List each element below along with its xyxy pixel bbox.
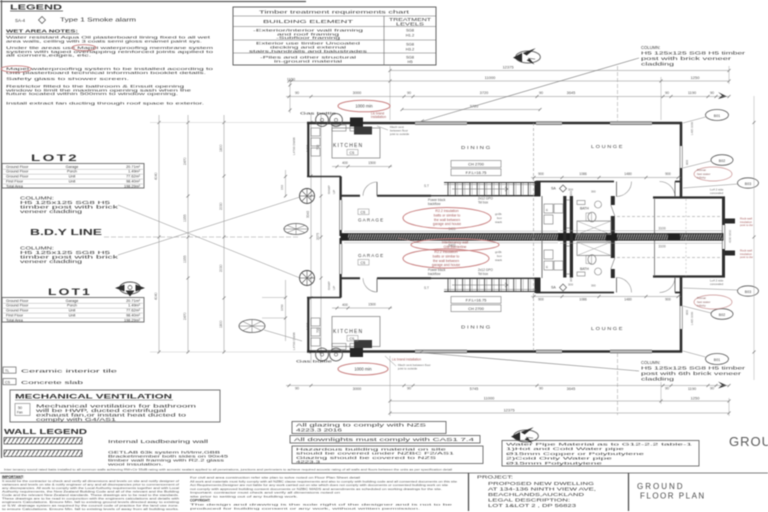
grid bubble B3 upper (738, 178, 759, 188)
dim row 3645-1190 bottom (718, 382, 727, 389)
svg-text:90: 90 (539, 91, 543, 95)
svg-text:post with 6th brick veneer: post with 6th brick veneer (641, 371, 742, 376)
boundary dash vertical upper (617, 66, 619, 121)
right edge dim line (753, 96, 755, 380)
svg-text:1190: 1190 (688, 386, 697, 391)
svg-text:joist to outside: joist to outside (389, 132, 410, 136)
svg-text:E: E (546, 208, 548, 212)
stair side wall lower (535, 278, 541, 294)
svg-text:DINING: DINING (461, 145, 492, 150)
svg-text:1480: 1480 (624, 172, 632, 176)
svg-text:to ensure Calculations. Ensure: to ensure Calculations. Ensure Min. fall… (2, 507, 179, 511)
svg-text:all corners,edges, etc.: all corners,edges, etc. (6, 53, 91, 58)
svg-text:Porch: Porch (67, 304, 77, 308)
svg-text:Fan: Fan (17, 411, 23, 415)
svg-text:1250: 1250 (691, 396, 701, 401)
bay dim 3100 upper (560, 230, 722, 232)
svg-text:LEVELS: LEVELS (396, 22, 424, 27)
svg-text:GROUND FLOOR PLAN: GROUND FLOOR PLAN (729, 434, 768, 449)
mechanical ventilation box (10, 390, 220, 422)
timber treatment table (233, 7, 436, 65)
dim line 12375 top (390, 70, 729, 72)
svg-text:3100: 3100 (658, 227, 666, 231)
svg-text:90: 90 (407, 91, 411, 95)
svg-text:L4T90 DW98: L4T90 DW98 (292, 137, 296, 155)
svg-text:300: 300 (569, 191, 573, 196)
svg-text:Concrete slab: Concrete slab (21, 380, 85, 385)
shower crossed box upper (577, 221, 611, 235)
svg-text:stack: stack (495, 220, 503, 224)
stair lower rail upper unit (431, 195, 536, 197)
sheet left border line (1, 0, 3, 458)
svg-text:900: 900 (538, 172, 544, 176)
wm dryer boxes lower (544, 261, 553, 270)
svg-text:Ground Floor: Ground Floor (6, 170, 29, 174)
right exterior wall lower (680, 277, 683, 306)
dining lounge divider upper (533, 123, 535, 351)
entry door arc upper (616, 182, 618, 197)
svg-text:Unit: Unit (69, 314, 77, 318)
svg-text:1050: 1050 (280, 304, 284, 311)
red clearance ellipse 1000 min top (338, 100, 390, 112)
svg-text:L495 0699: L495 0699 (690, 311, 694, 325)
svg-text:1480: 1480 (624, 297, 632, 301)
svg-text:2470: 2470 (183, 157, 187, 165)
svg-text:1250: 1250 (691, 75, 701, 80)
svg-text:900: 900 (665, 172, 671, 176)
boundary peg ellipse on BDY line (284, 224, 308, 235)
svg-text:S.T: S.T (424, 286, 429, 290)
closet wall upper (541, 196, 543, 233)
hazardous note box (292, 446, 483, 464)
svg-text:F.F.L=16.75: F.F.L=16.75 (466, 298, 488, 303)
svg-text:SA: SA (551, 187, 556, 191)
bath fixtures lower (577, 272, 585, 276)
kitchen appliances lower (311, 318, 320, 326)
ceiling height boxes upper (451, 161, 501, 168)
water pipe note box (502, 441, 699, 467)
svg-text:198.29m²: 198.29m² (124, 184, 141, 188)
svg-text:1800: 1800 (219, 144, 223, 152)
garage label upper (358, 209, 369, 215)
garage internal dim lower (344, 242, 558, 244)
svg-text:RAMP: RAMP (327, 281, 331, 290)
svg-text:700: 700 (316, 144, 320, 150)
svg-text:GIB plasterboard technical inf: GIB plasterboard technical information b… (6, 70, 206, 75)
dim row 90-3000-90 bottom (286, 385, 545, 387)
site dim line A vertical (158, 115, 160, 353)
hall wall lower (536, 292, 614, 294)
svg-text:LOUNGE: LOUNGE (591, 326, 624, 331)
dim line 1250 bottom (661, 400, 729, 402)
svg-text:2030: 2030 (219, 264, 223, 272)
wall legend hatch bar intertenancy (4, 450, 82, 457)
plan side dim line E vertical (320, 113, 322, 363)
svg-text:1800: 1800 (219, 320, 223, 328)
svg-text:Ground Floor: Ground Floor (6, 175, 29, 179)
bath wall upper (611, 196, 615, 205)
wm dryer boxes upper (544, 204, 553, 213)
svg-text:R2.2 insulation: R2.2 insulation (434, 250, 457, 254)
svg-text:90: 90 (539, 387, 543, 391)
dim line 11000 top (289, 80, 661, 82)
svg-text:1086: 1086 (579, 297, 587, 301)
svg-text:300: 300 (569, 277, 573, 282)
svg-text:LOT2: LOT2 (31, 153, 79, 164)
svg-text:1355: 1355 (183, 255, 187, 263)
grid bubble B3 lower (738, 286, 759, 296)
svg-text:Timber treatment requirements: Timber treatment requirements chart (259, 9, 411, 14)
svg-text:90: 90 (295, 387, 299, 391)
svg-text:4040: 4040 (154, 292, 158, 300)
svg-text:BEACHLANDS,AUCKLAND: BEACHLANDS,AUCKLAND (488, 492, 584, 497)
svg-text:LEGEND: LEGEND (10, 5, 62, 12)
svg-text:5745: 5745 (470, 386, 479, 391)
left exterior wall lower kitchen (307, 298, 309, 353)
svg-text:Safety glass to shower screen.: Safety glass to shower screen. (6, 76, 129, 81)
grid bubble B2 upper (711, 155, 733, 166)
svg-text:post with brick veneer: post with brick veneer (641, 56, 732, 61)
svg-text:Garage: Garage (66, 165, 79, 169)
red insulation cloud lower (403, 249, 489, 268)
svg-text:GROUND: GROUND (637, 482, 685, 491)
svg-text:veneer cladding: veneer cladding (20, 259, 84, 264)
boundary dash vertical lower (617, 353, 619, 415)
dim extension verticals bottom (389, 356, 391, 416)
svg-text:F.F.L=16.75: F.F.L=16.75 (466, 170, 488, 175)
laundry wall lower (307, 297, 341, 299)
svg-text:Porch: Porch (67, 170, 77, 174)
svg-text:KITCHEN: KITCHEN (333, 329, 363, 335)
svg-text:DINING: DINING (461, 325, 492, 330)
svg-text:300: 300 (591, 190, 596, 194)
plumbing wall upper (563, 196, 566, 278)
svg-text:area walls, ceiling with 3 coa: area walls, ceiling with 3 coats semi gl… (6, 38, 202, 43)
kitchen door arc upper (376, 182, 378, 196)
downlights note box (290, 436, 480, 444)
leader from lower boundary peg (264, 330, 302, 341)
svg-text:11000: 11000 (485, 75, 497, 80)
svg-text:Internal Loadbearing wall: Internal Loadbearing wall (108, 439, 208, 444)
svg-text:400: 400 (342, 303, 348, 307)
glazing note box (292, 422, 446, 434)
svg-text:KITCHEN: KITCHEN (333, 143, 363, 149)
svg-text:77.62m²: 77.62m² (126, 175, 141, 179)
svg-text:3720: 3720 (480, 90, 489, 95)
svg-text:R2.2 insulation: R2.2 insulation (435, 209, 458, 213)
kitchen dim 400-1500 lower (332, 307, 392, 309)
svg-text:the wall between: the wall between (433, 259, 459, 263)
sheet top border line (0, 1, 306, 3)
kitchen-garage wall upper (341, 195, 360, 197)
svg-text:S.T: S.T (424, 184, 429, 188)
svg-text:BUILDING ELEMENT: BUILDING ELEMENT (263, 19, 354, 24)
svg-text:H5 125x125 SG8 H5 timber: H5 125x125 SG8 H5 timber (641, 51, 746, 56)
kitchen door arc lower (376, 278, 378, 292)
deck edge verticals (685, 199, 687, 276)
tile legend CS (3, 379, 16, 385)
svg-text:4223.3 2016: 4223.3 2016 (296, 428, 343, 433)
svg-text:90: 90 (665, 387, 669, 391)
svg-text:PROJECT:: PROJECT: (477, 475, 513, 480)
svg-text:3000: 3000 (353, 90, 362, 95)
svg-text:GARAGE: GARAGE (358, 218, 384, 223)
svg-text:batts or similar to: batts or similar to (433, 254, 460, 258)
plan side dim line D vertical (310, 113, 312, 363)
svg-text:1000 min: 1000 min (354, 367, 372, 372)
svg-text:BATH: BATH (580, 267, 589, 271)
svg-text:900: 900 (685, 160, 689, 165)
kitchen-garage wall lower (341, 277, 360, 279)
bath fixtures upper (577, 201, 585, 205)
svg-text:CS: CS (350, 151, 355, 155)
svg-text:1150: 1150 (287, 78, 295, 82)
grid bubble B1 lower (706, 354, 729, 365)
left exterior wall upper kitchen (307, 122, 309, 177)
svg-text:concealed: concealed (710, 282, 724, 286)
svg-text:150: 150 (280, 185, 284, 190)
svg-text:1.49m²: 1.49m² (128, 170, 141, 174)
stair upper rail lower unit (431, 277, 536, 279)
kitchen bench upper (332, 128, 380, 158)
rear bay inner left line (654, 199, 656, 276)
entry door arc lower (616, 278, 618, 293)
svg-text:AT 134-136 NINTH VIEW AVE,: AT 134-136 NINTH VIEW AVE, (488, 487, 596, 492)
svg-text:backflow: backflow (428, 272, 441, 276)
svg-text:900: 900 (665, 297, 671, 301)
svg-text:future located within 500mm to: future located within 500mm to window op… (6, 91, 178, 96)
svg-text:1190: 1190 (688, 90, 697, 95)
rear bay bottom wall (653, 275, 725, 277)
leader line from upper column note (118, 205, 300, 278)
service stub lower right (725, 251, 735, 256)
bay dashed outline lower (617, 257, 722, 259)
svg-text:1500: 1500 (368, 303, 376, 307)
svg-text:FLOOR PLAN: FLOOR PLAN (640, 492, 706, 501)
svg-text:Ground Floor: Ground Floor (6, 304, 29, 308)
svg-text:2030: 2030 (219, 202, 223, 210)
svg-text:CS: CS (361, 261, 366, 265)
red insulation cloud upper (403, 208, 491, 229)
svg-text:90: 90 (710, 91, 714, 95)
svg-text:UP: UP (332, 190, 336, 194)
svg-text:backflow: backflow (428, 202, 441, 206)
staircase upper (444, 182, 536, 184)
svg-text:1086: 1086 (579, 172, 587, 176)
svg-text:B02: B02 (719, 159, 725, 163)
extension line bottom wall level (150, 351, 307, 353)
red clearance ellipse 1000 min bottom (338, 363, 388, 375)
svg-text:WET AREA NOTES:: WET AREA NOTES: (6, 29, 79, 34)
dim extension verticals top (389, 66, 391, 120)
svg-text:20.71m²: 20.71m² (126, 165, 141, 169)
svg-text:the wall between: the wall between (434, 218, 460, 222)
svg-text:B03: B03 (745, 182, 751, 186)
extension line top wall level (150, 122, 307, 124)
stair side wall upper (535, 181, 541, 197)
svg-text:3645: 3645 (567, 90, 576, 95)
kitchen bench lower (332, 317, 380, 347)
kitchen flue block upper (350, 118, 363, 127)
svg-text:12375: 12375 (502, 65, 514, 70)
site dim line C vertical (223, 115, 225, 353)
svg-text:CH 2700: CH 2700 (468, 306, 485, 311)
svg-text:Intertenancy wall: Intertenancy wall (442, 240, 468, 244)
svg-text:11000: 11000 (484, 396, 496, 401)
svg-text:RAMP: RAMP (327, 185, 331, 194)
svg-text:Tel box: Tel box (478, 200, 489, 204)
svg-text:TL: TL (5, 369, 9, 373)
svg-text:90: 90 (665, 91, 669, 95)
svg-text:H3.2: H3.2 (406, 47, 415, 52)
LOT2 area table (2, 164, 144, 189)
svg-text:stack: stack (495, 258, 503, 262)
title block divider left (468, 473, 470, 511)
svg-text:Ground Floor: Ground Floor (6, 165, 29, 169)
bay dim 3100 lower (560, 242, 722, 244)
garage front wall upper (339, 177, 341, 201)
porch step dim bracket lower left (285, 280, 287, 341)
svg-text:H5: H5 (407, 59, 413, 64)
svg-text:50: 50 (18, 406, 22, 410)
wall legend hatch bar internal loadbearing (4, 438, 82, 445)
svg-text:in-ground material: in-ground material (274, 59, 342, 64)
ramp post circle lower (300, 271, 315, 286)
svg-text:1000 min: 1000 min (355, 104, 373, 109)
svg-text:900: 900 (685, 310, 689, 315)
dim row 3645-1190 top (718, 92, 727, 99)
svg-text:4190 0810: 4190 0810 (728, 229, 732, 243)
svg-text:B01: B01 (714, 114, 720, 118)
boundary peg ellipse lower left (239, 320, 265, 333)
svg-text:3100: 3100 (658, 245, 666, 249)
svg-text:First Floor: First Floor (6, 180, 24, 184)
leader line from lower column note (118, 197, 300, 255)
svg-text:1355: 1355 (183, 214, 187, 222)
rinnai note lower (694, 295, 732, 309)
north compass near LOT1 (120, 282, 141, 294)
svg-text:installation: installation (371, 115, 386, 119)
intertenancy wall dark chunks (341, 233, 348, 240)
svg-text:All downlights must comply wit: All downlights must comply with CAS1 7.4 (294, 437, 476, 442)
gas bottles lower (316, 348, 329, 361)
svg-text:joist to outside: joist to outside (397, 367, 418, 371)
ramp post circle upper (300, 189, 315, 204)
svg-text:stairs,handrails and balustrad: stairs,handrails and balustrades (249, 48, 367, 53)
lounge dim row upper (531, 177, 681, 179)
svg-text:Ceramic interior tile: Ceramic interior tile (21, 369, 119, 374)
kitchen flue block lower (350, 348, 363, 357)
svg-text:3645: 3645 (567, 386, 576, 391)
boundary dash line to BDY text (104, 236, 300, 238)
svg-text:UP: UP (332, 286, 336, 290)
closet wall lower (541, 241, 543, 278)
svg-text:Unit: Unit (69, 309, 77, 313)
top wall windows (415, 121, 467, 123)
service stub upper right (725, 219, 735, 224)
svg-text:PROPOSED NEW DWELLING: PROPOSED NEW DWELLING (488, 481, 595, 486)
kitchen dim 400-1500 upper (332, 166, 392, 168)
svg-text:Ground Floor: Ground Floor (6, 309, 29, 313)
svg-text:Inter tenancy sound rated batt: Inter tenancy sound rated batts installe… (4, 468, 452, 472)
svg-text:L4T90 DW98: L4T90 DW98 (292, 332, 296, 350)
svg-text:wool insulation.: wool insulation. (108, 463, 163, 467)
svg-text:COLUMN:: COLUMN: (641, 45, 660, 50)
svg-text:GARAGE: GARAGE (358, 253, 384, 258)
svg-text:2470: 2470 (183, 312, 187, 320)
svg-text:H1.2: H1.2 (406, 33, 415, 38)
svg-text:infinity: infinity (697, 176, 706, 180)
grid bubble B2 lower (711, 309, 733, 320)
north compass top (516, 51, 541, 63)
svg-text:4223.3: 4223.3 (296, 460, 320, 464)
svg-text:veneer cladding: veneer cladding (20, 209, 84, 214)
leader from top right column note (420, 58, 639, 122)
rear bay top wall (653, 196, 725, 198)
svg-text:3000: 3000 (353, 386, 362, 391)
dim line 1250 top (661, 80, 729, 82)
north compass bottom (514, 430, 539, 442)
svg-text:cladding: cladding (641, 377, 675, 382)
bottom wall windows (415, 349, 467, 351)
svg-text:1500: 1500 (368, 161, 376, 165)
svg-text:20.71m²: 20.71m² (126, 299, 141, 303)
svg-text:First Floor: First Floor (6, 314, 24, 318)
svg-text:4040: 4040 (154, 172, 158, 180)
svg-text:Lic brand installation: Lic brand installation (392, 358, 421, 362)
step dim bracket upper left (285, 170, 287, 197)
svg-text:Garage: Garage (66, 299, 79, 303)
svg-text:77.62m²: 77.62m² (126, 309, 141, 313)
svg-text:SA: SA (551, 286, 556, 290)
svg-text:90: 90 (710, 387, 714, 391)
grid bubble B1 upper (706, 110, 729, 121)
svg-text:2075: 2075 (316, 233, 320, 240)
dim line 11000 bottom (390, 400, 661, 402)
svg-text:infinity: infinity (697, 304, 706, 308)
rinnai note upper (694, 167, 732, 181)
gas bottles upper (316, 114, 329, 127)
leader from bottom right column note (420, 353, 639, 372)
plumbing wall lower (566, 245, 569, 247)
svg-text:5400: 5400 (448, 227, 455, 231)
LOT1 area table (2, 298, 144, 323)
svg-text:L495 0699: L495 0699 (690, 121, 694, 135)
svg-text:Unit: Unit (69, 180, 77, 184)
svg-text:98.40m²: 98.40m² (126, 180, 141, 184)
top exterior wall (307, 122, 415, 125)
svg-text:E: E (546, 265, 548, 269)
svg-text:post to dw: post to dw (740, 223, 754, 227)
right exterior wall upper (680, 122, 683, 146)
laundry wall upper (307, 176, 341, 178)
svg-text:batts or similar to: batts or similar to (434, 213, 461, 217)
svg-text:produced for building consent: produced for building consent or any wor… (190, 507, 420, 511)
svg-text:BATH: BATH (580, 207, 589, 211)
svg-text:LOT 1&LOT 2 , DP 56823: LOT 1&LOT 2 , DP 56823 (488, 503, 577, 508)
bottom exterior wall (307, 350, 415, 353)
svg-text:Type 1 Smoke alarm: Type 1 Smoke alarm (60, 18, 136, 24)
tile legend TL (3, 367, 16, 373)
svg-text:300: 300 (568, 283, 573, 287)
svg-text:198.29m²: 198.29m² (124, 318, 141, 322)
svg-text:COLUMN:: COLUMN: (641, 360, 660, 365)
svg-text:garage and house: garage and house (432, 263, 460, 267)
svg-text:post to dw: post to dw (740, 255, 754, 259)
svg-text:-Subfloor framing: -Subfloor framing (276, 35, 340, 40)
svg-text:400: 400 (342, 161, 348, 165)
bay dashed outline upper (617, 216, 722, 218)
